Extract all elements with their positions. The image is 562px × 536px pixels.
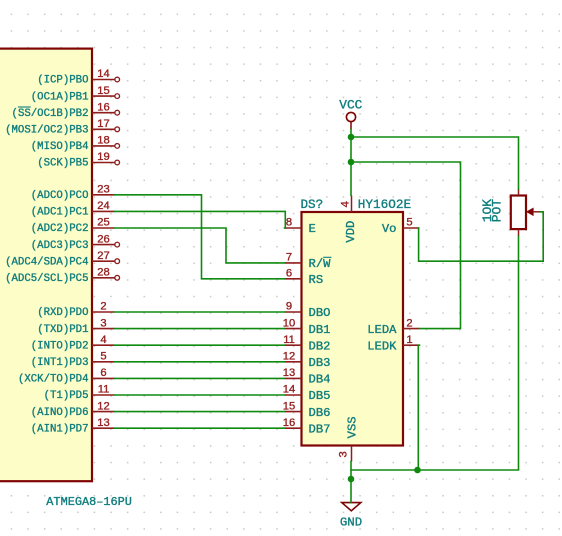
- svg-text:1: 1: [406, 334, 412, 346]
- svg-text:16: 16: [283, 417, 295, 429]
- junction VCC / LEDA branch: [348, 159, 355, 166]
- pin 25 (ADC2)PC2 of U1: [31, 217, 115, 236]
- pin 9 DB0 of DS?: [285, 301, 331, 321]
- pin 1 LEDK of DS?: [367, 334, 419, 354]
- svg-text:6: 6: [286, 268, 292, 280]
- pin 19 (SCK)PB5 of U1: [37, 151, 119, 170]
- svg-text:8: 8: [286, 217, 292, 229]
- svg-text:(RXD)PDO: (RXD)PDO: [37, 307, 88, 319]
- svg-text:(AINO)PD6: (AINO)PD6: [31, 407, 89, 419]
- pin 28 (ADC5/SCL)PC5 of U1: [5, 267, 119, 286]
- pin 5 (INT1)PD3 of U1: [31, 351, 115, 370]
- svg-text:(ADC3)PC3: (ADC3)PC3: [31, 240, 89, 252]
- svg-text:(INTO)PD2: (INTO)PD2: [31, 340, 89, 352]
- svg-text:14: 14: [283, 384, 295, 396]
- pin 6 RS of DS?: [285, 268, 324, 288]
- svg-text:POT: POT: [490, 199, 505, 223]
- wire LEDK pin1 to GND rail: [418, 345, 419, 470]
- svg-text:RS: RS: [309, 273, 324, 287]
- svg-text:13: 13: [283, 367, 295, 379]
- pin 18 (MISO)PB4 of U1: [31, 135, 120, 154]
- svg-text:7: 7: [286, 252, 292, 264]
- pin 4 VDD of DS?: [340, 195, 358, 242]
- wire VCC to LEDA pin2: [351, 162, 461, 329]
- pin 4 (INT0)PD2 of U1: [31, 334, 115, 353]
- svg-text:DB4: DB4: [309, 373, 331, 387]
- svg-text:(MOSI/OC2)PB3: (MOSI/OC2)PB3: [5, 125, 88, 137]
- svg-text:23: 23: [97, 184, 109, 196]
- svg-text:3: 3: [100, 317, 106, 329]
- svg-text:(OC1A)PB1: (OC1A)PB1: [31, 91, 89, 103]
- svg-text:14: 14: [97, 68, 109, 80]
- svg-text:LEDK: LEDK: [367, 339, 397, 353]
- wire PC1 pin24 to E pin8: [115, 211, 286, 228]
- wire PD0 to DB0: [115, 311, 285, 313]
- svg-text:5: 5: [406, 217, 412, 229]
- svg-text:(ADC2)PC2: (ADC2)PC2: [31, 223, 89, 235]
- pin 3 VSS of DS?: [338, 416, 359, 461]
- svg-text:11: 11: [98, 384, 110, 396]
- pin 13 DB4 of DS?: [283, 367, 331, 387]
- power symbol VCC: [339, 98, 362, 130]
- svg-text:(ADC1)PC1: (ADC1)PC1: [31, 207, 89, 219]
- pin 2 LEDA of DS?: [367, 317, 419, 337]
- pin 5 Vo of DS?: [382, 217, 420, 237]
- wire PD5 to DB5: [115, 394, 285, 396]
- pin 17 (MOSI/OC2)PB3 of U1: [5, 118, 119, 137]
- wire VSS pin3 to GND symbol: [350, 462, 352, 503]
- junction GND rail / GND symbol: [348, 476, 355, 483]
- svg-text:DB1: DB1: [309, 323, 331, 337]
- svg-text:12: 12: [97, 400, 109, 412]
- svg-text:27: 27: [97, 250, 109, 262]
- svg-text:R/W: R/W: [309, 257, 332, 271]
- wire PC2 pin25 to R/W pin7: [115, 228, 285, 263]
- wire PC0 pin23 to RS pin6: [115, 195, 285, 279]
- wire Vo pin5 to pot wiper: [419, 212, 544, 261]
- svg-text:19: 19: [97, 151, 109, 163]
- svg-text:(ADC5/SCL)PC5: (ADC5/SCL)PC5: [5, 273, 88, 285]
- svg-text:(ADCO)PCO: (ADCO)PCO: [31, 190, 89, 202]
- svg-text:(MISO)PB4: (MISO)PB4: [31, 141, 89, 153]
- svg-text:28: 28: [97, 267, 109, 279]
- svg-text:LEDA: LEDA: [367, 323, 397, 337]
- svg-text:(XCK/TO)PD4: (XCK/TO)PD4: [18, 374, 89, 386]
- pin 8 E of DS?: [285, 217, 316, 237]
- svg-text:4: 4: [100, 334, 106, 346]
- pin 14 DB5 of DS?: [283, 384, 331, 404]
- svg-text:25: 25: [97, 217, 109, 229]
- svg-text:15: 15: [283, 400, 295, 412]
- pin 14 (ICP)PB0 of U1: [37, 68, 119, 87]
- svg-text:3: 3: [338, 451, 350, 458]
- wire GND rail from VSS to pot bottom: [351, 236, 519, 470]
- svg-text:16: 16: [97, 101, 109, 113]
- wire VCC to pot top (net VCC): [351, 137, 519, 189]
- svg-text:DB7: DB7: [309, 422, 331, 436]
- svg-text:11: 11: [283, 334, 295, 346]
- svg-text:24: 24: [97, 200, 109, 212]
- wire PD3 to DB3: [115, 361, 285, 363]
- svg-text:ATMEGA8–16PU: ATMEGA8–16PU: [46, 495, 132, 509]
- svg-text:10: 10: [283, 317, 295, 329]
- svg-text:DB3: DB3: [309, 356, 331, 370]
- svg-text:HY16O2E: HY16O2E: [358, 197, 411, 212]
- svg-text:(AIN1)PD7: (AIN1)PD7: [31, 423, 89, 435]
- svg-text:18: 18: [97, 135, 109, 147]
- junction GND rail / LEDK: [414, 467, 421, 474]
- svg-text:6: 6: [100, 367, 106, 379]
- svg-text:(ICP)PBO: (ICP)PBO: [37, 75, 88, 87]
- pin 11 (T1)PD5 of U1: [44, 384, 115, 403]
- svg-text:(TXD)PD1: (TXD)PD1: [37, 324, 88, 336]
- svg-text:DB6: DB6: [309, 406, 331, 420]
- svg-text:DBO: DBO: [309, 306, 331, 320]
- svg-text:26: 26: [97, 233, 109, 245]
- pin 16 DB7 of DS?: [283, 417, 331, 437]
- pin 7 R/W of DS?: [285, 252, 332, 272]
- svg-text:9: 9: [286, 301, 292, 313]
- wire VCC stem to VDD pin4: [350, 130, 352, 196]
- pin 23 (ADC0)PC0 of U1: [31, 184, 115, 203]
- pin 2 (RXD)PD0 of U1: [37, 301, 114, 320]
- svg-text:DS?: DS?: [301, 198, 324, 212]
- svg-text:2: 2: [100, 301, 106, 313]
- wire PD7 to DB7: [115, 427, 285, 429]
- pin 12 (AIN0)PD6 of U1: [31, 400, 115, 419]
- wire PD6 to DB6: [115, 411, 285, 413]
- pin 26 (ADC3)PC3 of U1: [31, 233, 120, 252]
- junction VCC / pot branch: [348, 134, 355, 141]
- pin 11 DB2 of DS?: [283, 334, 330, 354]
- pin 24 (ADC1)PC1 of U1: [31, 200, 115, 219]
- svg-text:4: 4: [340, 201, 352, 208]
- svg-text:5: 5: [100, 351, 106, 363]
- svg-text:(SS/OC1B)PB2: (SS/OC1B)PB2: [12, 108, 89, 120]
- svg-text:13: 13: [97, 417, 109, 429]
- svg-text:GND: GND: [340, 516, 362, 530]
- svg-text:(ADC4/SDA)PC4: (ADC4/SDA)PC4: [5, 256, 88, 268]
- svg-text:17: 17: [97, 118, 109, 130]
- svg-text:(SCK)PB5: (SCK)PB5: [37, 158, 88, 170]
- pin 15 (OC1A)PB1 of U1: [31, 85, 120, 104]
- svg-text:2: 2: [406, 317, 412, 329]
- pin 27 (ADC4/SDA)PC4 of U1: [5, 250, 119, 269]
- IC DS? HY1602E LCD body: [301, 197, 412, 446]
- pin 3 (TXD)PD1 of U1: [37, 317, 114, 336]
- svg-text:VDD: VDD: [344, 221, 358, 243]
- svg-text:DB5: DB5: [309, 389, 331, 403]
- svg-text:(T1)PD5: (T1)PD5: [44, 390, 89, 402]
- power symbol GND: [340, 503, 362, 530]
- pin 13 (AIN1)PD7 of U1: [31, 417, 115, 436]
- svg-text:(INT1)PD3: (INT1)PD3: [31, 357, 89, 369]
- svg-text:12: 12: [283, 351, 295, 363]
- wire PD1 to DB1: [115, 328, 285, 330]
- svg-text:Vo: Vo: [382, 222, 397, 236]
- pin 10 DB1 of DS?: [283, 317, 331, 337]
- pin 15 DB6 of DS?: [283, 400, 331, 420]
- wire PD4 to DB4: [115, 377, 285, 379]
- pin 6 (XCK/T0)PD4 of U1: [18, 367, 115, 386]
- svg-text:15: 15: [97, 85, 109, 97]
- potentiometer RV1 10K POT body: [480, 189, 541, 236]
- pin 12 DB3 of DS?: [283, 351, 331, 371]
- svg-text:VCC: VCC: [339, 98, 362, 113]
- IC U1 ATMEGA8-16PU body: [0, 49, 132, 510]
- pin 16 (SS/OC1B)PB2 of U1: [12, 101, 120, 120]
- svg-text:DB2: DB2: [309, 339, 331, 353]
- svg-text:E: E: [309, 222, 316, 236]
- wire PD2 to DB2: [115, 344, 285, 346]
- svg-text:VSS: VSS: [346, 416, 360, 438]
